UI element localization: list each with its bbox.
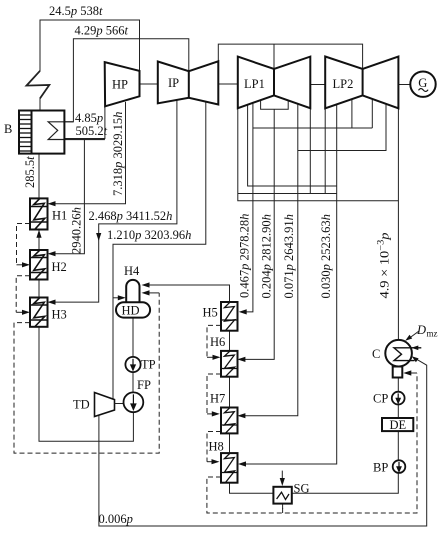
svg-text:H4: H4 xyxy=(124,264,140,278)
svg-text:TD: TD xyxy=(73,398,90,412)
svg-text:H7: H7 xyxy=(210,392,225,406)
svg-text:0.006p: 0.006p xyxy=(99,512,133,526)
svg-text:H8: H8 xyxy=(209,440,224,454)
svg-text:TP: TP xyxy=(141,358,156,372)
svg-text:7.318p 3029.15h: 7.318p 3029.15h xyxy=(111,112,125,196)
svg-text:C: C xyxy=(372,347,380,361)
svg-text:4.29p 566t: 4.29p 566t xyxy=(75,24,129,38)
svg-text:LP2: LP2 xyxy=(333,77,354,91)
svg-text:H3: H3 xyxy=(52,308,67,322)
svg-text:BP: BP xyxy=(373,461,388,475)
svg-text:DE: DE xyxy=(390,418,407,432)
svg-text:D: D xyxy=(416,323,426,337)
svg-text:mz: mz xyxy=(427,329,438,339)
svg-text:1.210p 3203.96h: 1.210p 3203.96h xyxy=(107,228,191,242)
svg-text:285.5t: 285.5t xyxy=(23,156,37,188)
svg-text:LP1: LP1 xyxy=(244,77,265,91)
svg-text:H5: H5 xyxy=(203,306,218,320)
svg-text:B: B xyxy=(4,122,12,136)
svg-text:H1: H1 xyxy=(52,209,67,223)
svg-text:2940.26h: 2940.26h xyxy=(70,207,84,254)
svg-text:CP: CP xyxy=(373,391,388,405)
svg-text:0.030p 2523.63h: 0.030p 2523.63h xyxy=(319,214,333,298)
svg-text:SG: SG xyxy=(294,482,310,496)
svg-text:HP: HP xyxy=(112,78,128,92)
svg-text:0.204p 2812.90h: 0.204p 2812.90h xyxy=(260,214,274,298)
svg-text:24.5p 538t: 24.5p 538t xyxy=(49,4,103,18)
svg-text:G: G xyxy=(418,76,427,90)
svg-text:H2: H2 xyxy=(52,260,67,274)
svg-text:FP: FP xyxy=(137,378,151,392)
svg-text:HD: HD xyxy=(122,304,140,318)
svg-text:0.467p 2978.28h: 0.467p 2978.28h xyxy=(238,214,252,298)
svg-text:H6: H6 xyxy=(210,335,225,349)
svg-text:505.2t: 505.2t xyxy=(76,124,108,138)
svg-text:2.468p 3411.52h: 2.468p 3411.52h xyxy=(89,209,173,223)
svg-text:IP: IP xyxy=(168,76,179,90)
svg-text:0.071p 2643.91h: 0.071p 2643.91h xyxy=(282,214,296,298)
